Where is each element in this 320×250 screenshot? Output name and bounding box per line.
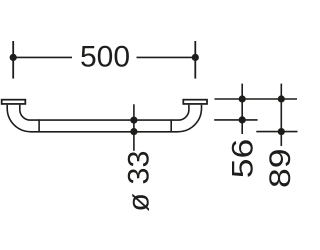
dot on tube bottom bbox=[130, 128, 137, 135]
svg-text:500: 500 bbox=[80, 41, 130, 74]
dim line 89 bbox=[280, 84, 282, 146]
dot 89 top bbox=[278, 95, 285, 102]
svg-text:ø 33: ø 33 bbox=[123, 151, 156, 212]
dot 56 top bbox=[239, 95, 246, 102]
witness line left of 500 dim bbox=[12, 41, 14, 79]
left wall flange bbox=[2, 100, 26, 104]
dimension line 500 left segment bbox=[13, 56, 72, 58]
dot 89 bottom bbox=[278, 128, 285, 135]
tube outer/bottom contour bbox=[7, 105, 201, 132]
svg-text:56: 56 bbox=[226, 139, 259, 179]
dot left end of 500 dim bbox=[10, 54, 17, 61]
right wall flange bbox=[183, 100, 207, 104]
weld seam right bbox=[170, 119, 172, 132]
dimension line 500 right segment bbox=[137, 56, 196, 58]
dim line 56 bbox=[241, 84, 243, 134]
extension line wall plane bbox=[215, 98, 298, 100]
tube inner/top contour bbox=[20, 105, 189, 120]
weld seam left bbox=[38, 119, 40, 132]
extension line tube top bbox=[214, 119, 257, 121]
extension line tube bottom bbox=[256, 131, 297, 133]
svg-text:89: 89 bbox=[264, 148, 297, 188]
dot right end of 500 dim bbox=[192, 54, 199, 61]
diameter dim line bbox=[133, 104, 135, 151]
witness line right of 500 dim bbox=[194, 41, 196, 79]
dot 56 bottom bbox=[239, 116, 246, 123]
dot on tube top bbox=[130, 117, 137, 124]
